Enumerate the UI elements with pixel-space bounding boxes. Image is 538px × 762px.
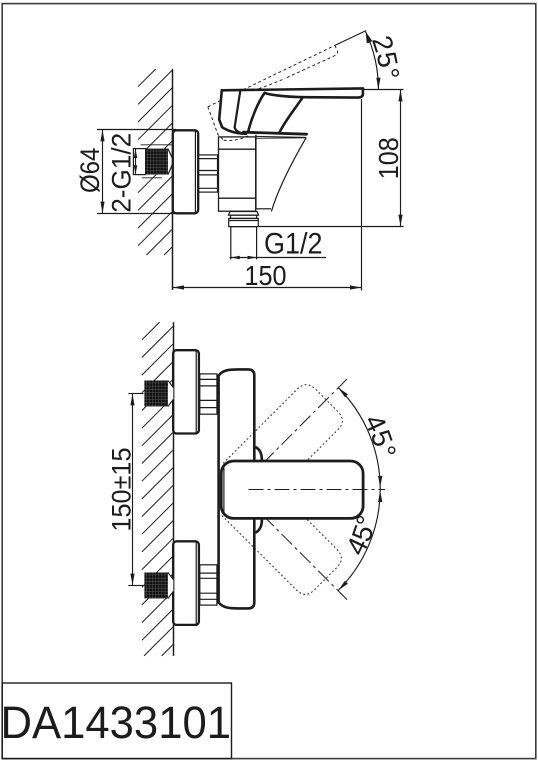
svg-text:150±15: 150±15 <box>106 448 136 532</box>
svg-text:150: 150 <box>245 260 287 291</box>
svg-text:2-G1/2: 2-G1/2 <box>107 133 137 213</box>
svg-text:Ø64: Ø64 <box>75 148 105 194</box>
svg-text:G1/2: G1/2 <box>264 228 323 261</box>
svg-text:108: 108 <box>373 137 404 179</box>
svg-text:DA1433101: DA1433101 <box>1 697 232 748</box>
